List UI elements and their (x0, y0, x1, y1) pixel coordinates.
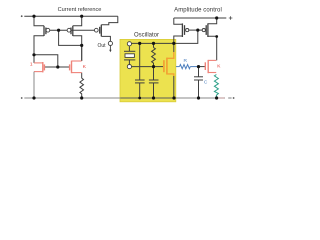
svg-text:Out: Out (97, 43, 106, 49)
svg-text:1: 1 (30, 62, 33, 68)
svg-text:Amplitude control: Amplitude control (174, 8, 222, 14)
svg-text:C: C (204, 80, 208, 86)
svg-text:R: R (183, 58, 187, 64)
svg-text:Oscillator: Oscillator (134, 33, 159, 39)
svg-text:Current reference: Current reference (58, 7, 102, 13)
